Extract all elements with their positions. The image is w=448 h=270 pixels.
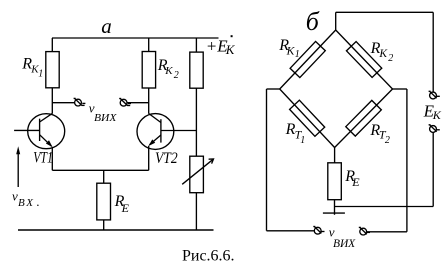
wire: rheostat to bottom rail [195,193,197,230]
svg-text:К: К [225,42,236,57]
svg-text:Рис.6.6.: Рис.6.6. [182,248,235,265]
transistor VT1 emitter stroke with arrow [40,135,52,147]
svg-text:2: 2 [174,70,179,81]
rheostat (adjustable resistor) body [190,156,204,193]
transistor VT2 base bar [160,119,162,142]
resistor RE (circuit a) [97,183,111,220]
wire: left rail down [266,89,268,231]
resistor RK2 [142,52,155,89]
arrow: vBX input [17,151,19,187]
wire: bridge arm apex to right node [336,30,393,89]
svg-text:VT2: VT2 [155,150,178,167]
label vBX input [12,188,39,209]
terminal: left output (circuit a) [74,98,86,106]
wire: right branch resistor to rheostat [195,88,197,156]
transistor VT2 circle [137,114,174,150]
svg-text:а: а [101,14,112,38]
wire: left rail to vBIX left terminal [267,230,315,232]
svg-text:б: б [306,7,320,36]
wire: rail to RK2 [148,38,150,52]
transistor VT1 base bar [39,119,41,141]
svg-text:Е: Е [351,175,360,189]
svg-text:ВИХ: ВИХ [333,238,356,250]
terminal: right output (circuit a) [119,99,131,107]
label RT2 (bridge) [369,122,390,146]
resistor RE bridge [328,163,342,200]
resistor RT2 bridge body [346,100,382,136]
terminal: Ek minus [429,125,440,133]
label RT1 (bridge) [285,121,306,146]
svg-text:ВХ: ВХ [18,197,34,209]
wire: rail to RK1 [51,38,53,52]
rheostat arrow [182,160,212,185]
transistor VT2 emitter stroke with arrow [150,135,161,145]
label RE (circuit a) [114,193,130,215]
svg-text:К: К [432,108,442,122]
wire: top supply rail (circuit a) [52,37,219,39]
wire: bridge arm right node to bottom node [335,89,393,148]
wire: bridge arm left node to bottom node [280,89,335,148]
label RE (bridge) [344,168,360,189]
wire: VT1 emitter down [51,147,53,170]
label RK1 (circuit a) [21,56,43,80]
svg-text:2: 2 [385,135,390,146]
wire: emitter bus to RE [103,170,105,183]
label vBIX (circuit a) [89,100,118,124]
svg-text:К: К [164,65,173,77]
wire: Ek bottom terminal down [432,132,434,206]
wire: ground wire to Ek minus [335,206,434,208]
wire: RK2 to VT2 collector [148,88,150,114]
wire: bottom rail (circuit a) [18,229,214,231]
wire: VT1 collector to left output terminal [52,102,74,104]
wire: left node to left rail [267,88,280,90]
wire: right side down to Ek top terminal [432,12,434,92]
resistor RT1 bridge body [290,100,325,136]
wire: RE to bottom rail [103,220,105,230]
svg-text:К: К [378,48,388,60]
terminal: vBIX right [359,227,370,235]
svg-text:ВИХ: ВИХ [94,112,118,124]
wire: right node to right branch rail [393,88,407,90]
resistor RK1 bridge body [290,41,325,77]
transistor VT1 circle [28,114,65,149]
wire: rail to right branch resistor [195,38,197,52]
svg-text:VT1: VT1 [33,149,53,167]
wire: emitter bus [52,169,148,171]
wire: VT1 base lead [14,129,39,131]
label RK2 (circuit a) [157,57,179,81]
label vBIX (bridge) [329,224,356,250]
ground bar [323,212,345,214]
label Ek (bridge) [423,102,442,123]
wire: VT2 base lead to right branch [161,130,197,132]
wire: RK1 to VT1 collector [51,88,53,114]
wire: right branch down [406,89,408,232]
svg-text:1: 1 [295,49,300,60]
terminal: vBIX left [313,227,324,235]
svg-text:Е: Е [121,201,130,215]
svg-text:1: 1 [300,135,305,146]
resistor right branch upper [190,52,203,88]
wire: bottom node to RE bridge [334,148,336,163]
wire: bridge arm apex to left node [280,30,336,89]
transistor VT2 collector stroke [149,114,161,123]
wire: vBIX right terminal to right branch [367,231,407,233]
wire: apex stub up [335,12,337,30]
transistor VT1 collector stroke [40,113,53,122]
resistor RK1 [46,52,59,88]
label RK1 (bridge) [278,37,300,60]
svg-text:1: 1 [38,68,43,79]
wire: right output terminal to VT2 collector [127,102,149,104]
label +Ek supply [206,35,236,57]
terminal: Ek plus [429,91,440,99]
label RK2 (bridge) [370,40,394,64]
wire: top wire (circuit b) [336,11,434,13]
wire: VT2 emitter down [148,146,150,170]
resistor RK2 bridge body [346,42,381,78]
svg-text:.: . [36,194,39,209]
ground stub [334,200,336,215]
svg-text:2: 2 [388,53,393,64]
